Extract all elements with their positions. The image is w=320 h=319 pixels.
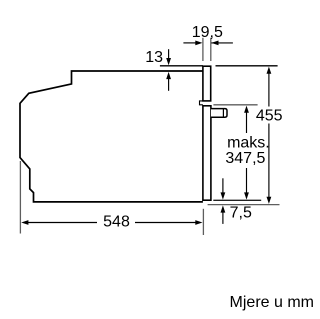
svg-text:Mjere u mm: Mjere u mm: [230, 294, 314, 311]
svg-text:455: 455: [256, 108, 283, 125]
dim 548 horizontal: [21, 220, 202, 225]
extension line 19,5 left: [202, 38, 204, 61]
bottom gray line: [208, 204, 280, 206]
fascia (control panel strip): [203, 66, 211, 101]
bottom dark line: [213, 199, 261, 201]
dim 13 up arrow: [166, 72, 171, 91]
handle inner edge: [222, 109, 224, 118]
svg-text:19,5: 19,5: [192, 24, 223, 41]
door handle: [211, 109, 227, 118]
svg-text:548: 548: [103, 213, 130, 230]
tick line for 13: [160, 65, 203, 67]
dim 13 down arrow: [166, 49, 171, 65]
dim 455 vertical: [267, 67, 272, 204]
svg-text:7,5: 7,5: [230, 205, 252, 222]
548 left extension line: [19, 161, 21, 234]
dim 19,5 left arrow: [183, 41, 202, 46]
maks top extension line: [213, 104, 257, 106]
oven body outline: [20, 71, 203, 202]
fascia bottom-left bump: [200, 101, 203, 105]
dim 7,5 down arrow: [221, 178, 226, 199]
door: [203, 106, 211, 200]
dim 7,5 up arrow: [221, 205, 226, 224]
dim maks 347,5 vertical: [244, 106, 249, 200]
svg-text:347,5: 347,5: [225, 150, 265, 167]
extension line 19,5 right: [210, 38, 212, 61]
dim 19,5 right arrow: [211, 41, 233, 46]
svg-text:13: 13: [145, 49, 163, 66]
top reference line (455 top): [216, 65, 278, 67]
548 right extension line: [202, 209, 204, 235]
